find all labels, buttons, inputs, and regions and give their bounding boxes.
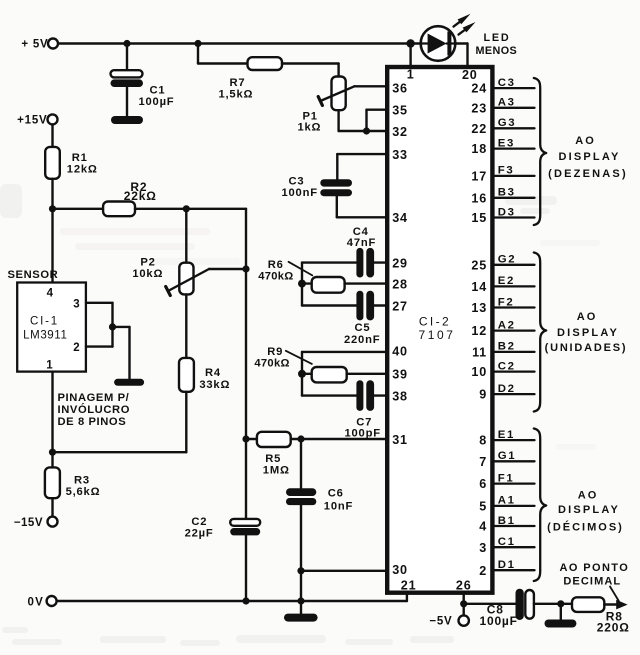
wire pin31 [291,438,388,440]
svg-text:18: 18 [471,142,487,156]
svg-text:1: 1 [46,359,53,371]
svg-text:22kΩ: 22kΩ [124,189,157,203]
pin 10 wire / segment C2 [495,370,535,372]
svg-text:A3: A3 [498,97,516,109]
svg-text:8: 8 [479,434,487,448]
svg-text:470kΩ: 470kΩ [258,270,293,282]
wire sensor pin2 [86,345,113,347]
capacitor C6 [286,488,316,496]
svg-text:SENSOR: SENSOR [8,269,59,281]
pin 4 wire / segment B1 [495,525,535,527]
ground C8-R8 [545,620,577,628]
svg-text:5: 5 [479,500,487,514]
svg-text:13: 13 [471,301,487,315]
svg-text:INVÓLUCRO: INVÓLUCRO [58,403,131,416]
svg-text:R4: R4 [205,367,221,379]
wire pin35 link [367,108,388,110]
node R9 junction [298,370,306,378]
ground under C1 [111,116,143,124]
svg-text:−5V: −5V [429,615,452,627]
pin 11 wire / segment B2 [495,351,535,353]
potentiometer P1 [332,77,346,111]
svg-text:29: 29 [392,256,408,270]
svg-text:C2: C2 [498,360,516,372]
svg-text:220nF: 220nF [344,334,380,346]
pin 8 wire / segment E1 [495,439,535,441]
wire middle column [245,209,247,519]
svg-text:C6: C6 [328,487,344,499]
pin 2 wire / segment D1 [495,569,535,571]
svg-text:G1: G1 [498,450,516,462]
svg-text:R1: R1 [72,152,88,164]
svg-text:17: 17 [471,170,487,184]
pin 23 wire / segment A3 [495,107,535,109]
svg-text:36: 36 [392,82,408,96]
capacitor C5 [356,291,363,321]
op-amp U CI-1 LM3911 box [17,283,86,372]
svg-text:+ 5V: + 5V [21,39,48,51]
svg-text:30: 30 [392,563,408,577]
wire R7 branch [197,44,199,64]
svg-text:4: 4 [47,288,54,300]
wire R2 right [135,208,246,210]
svg-text:26: 26 [456,578,472,592]
svg-text:47nF: 47nF [347,237,376,249]
svg-text:0V: 0V [28,596,44,608]
wire pin34 [336,196,338,217]
wire R2 to P2 [185,209,187,263]
svg-text:21: 21 [401,578,417,592]
svg-text:AO: AO [575,135,596,147]
pin 17 wire / segment F3 [495,175,535,177]
svg-text:22µF: 22µF [185,528,214,540]
wire +15V to R1 [51,124,53,147]
node C1 junction [123,40,130,47]
wire C5 loop [301,284,303,306]
svg-text:MENOS: MENOS [476,45,518,57]
svg-text:G2: G2 [498,254,516,266]
svg-text:14: 14 [471,280,487,294]
svg-text:LED: LED [484,32,511,44]
svg-text:10nF: 10nF [324,501,353,513]
ground below 0V rail [284,614,318,622]
scan noise (decorative) [0,184,600,646]
pin 6 wire / segment F1 [495,482,535,484]
svg-text:R3: R3 [74,475,90,487]
svg-text:1,5kΩ: 1,5kΩ [219,89,254,101]
node 0V rail junction [297,597,304,604]
svg-text:R6: R6 [268,259,284,271]
resistor R2 [103,202,135,217]
svg-text:CI-2: CI-2 [419,314,451,328]
LED MENOS [421,26,456,61]
resistor R4 [179,358,194,392]
-15V terminal [48,517,58,527]
node R5 right junction [297,435,304,442]
pin 5 wire / segment A1 [495,505,535,507]
wire 0V rail [57,600,407,602]
svg-text:DISPLAY: DISPLAY [558,504,620,516]
node R7 junction [194,40,201,47]
svg-text:10: 10 [471,365,487,379]
svg-text:AO PONTO: AO PONTO [560,562,630,574]
svg-text:(DEZENAS): (DEZENAS) [548,168,628,180]
svg-text:AO: AO [578,490,599,502]
svg-text:33kΩ: 33kΩ [199,379,230,391]
wire R7 to P1 [282,62,339,64]
0V terminal [47,596,57,606]
capacitor C3 [320,179,352,186]
capacitor C7 [356,380,363,411]
svg-text:39: 39 [392,368,408,382]
svg-text:9: 9 [479,388,487,402]
svg-text:DISPLAY: DISPLAY [558,151,620,163]
node pin1-R3 junction [49,449,56,456]
wire pin38 [374,394,387,396]
wire pin1 drop [409,44,411,68]
svg-text:F3: F3 [498,165,515,177]
svg-text:2: 2 [73,342,80,354]
leader line R9 [286,351,312,364]
svg-text:DECIMAL: DECIMAL [563,575,621,587]
svg-text:3: 3 [73,298,80,310]
svg-text:DE 8 PINOS: DE 8 PINOS [58,416,127,428]
wire R2 left [53,208,104,210]
wire LED to pin20 [455,42,467,44]
svg-text:100nF: 100nF [282,187,318,199]
svg-text:32: 32 [392,125,408,139]
svg-text:AO: AO [577,311,598,323]
svg-text:A1: A1 [498,495,516,507]
wire C1 drop [126,44,128,71]
svg-text:23: 23 [471,101,487,115]
wire pin26 drop [463,593,465,616]
svg-text:40: 40 [392,345,408,359]
svg-text:LM3911: LM3911 [23,330,67,342]
svg-text:D2: D2 [498,383,516,395]
node R1-R2-sensor junction [49,205,56,212]
svg-text:3: 3 [479,541,487,555]
wire P1 wiper to pin36 [354,85,387,87]
wire C6 column bottom [300,505,302,614]
pin 13 wire / segment F2 [495,306,535,308]
svg-text:B2: B2 [498,341,516,353]
svg-text:100pF: 100pF [345,427,381,439]
wire junction to ground [560,604,562,620]
wire pin39 [347,373,388,375]
potentiometer P2 [179,263,193,295]
wire P1 bottom to pin32 [337,110,339,131]
node wiper junction [242,265,249,272]
svg-text:100µF: 100µF [480,614,518,628]
svg-text:15: 15 [471,211,487,225]
resistor R6 [302,282,312,284]
LED light arrow 2 [459,29,467,35]
svg-text:470kΩ: 470kΩ [254,357,289,369]
resistor R5 [246,438,257,440]
wire C8 to R8 [534,603,572,605]
svg-text:+15V: +15V [17,115,47,127]
wire pin30 [301,570,387,572]
resistor R3 [45,467,60,498]
svg-text:12kΩ: 12kΩ [67,163,98,175]
wire C7 loop [301,374,303,396]
svg-text:2: 2 [479,564,487,578]
svg-text:P2: P2 [140,256,155,268]
svg-text:1: 1 [407,68,415,82]
op-amp U CI-2 7107 box [387,67,492,593]
svg-text:22: 22 [471,122,487,136]
resistor R8 [572,597,604,612]
svg-text:16: 16 [471,191,487,205]
wire node to sensor pin4 [51,209,53,283]
svg-text:D1: D1 [498,559,516,571]
wire pin29 [374,261,387,263]
pin 24 wire / segment C3 [495,87,535,89]
svg-text:R9: R9 [267,346,283,358]
node sensor pins 2-3 junction [109,323,116,330]
svg-text:34: 34 [392,211,408,225]
node pin30 junction [297,567,304,574]
pin 12 wire / segment A2 [495,329,535,331]
+5V terminal [48,39,58,49]
svg-text:11: 11 [472,346,487,360]
svg-text:6: 6 [479,477,487,491]
wire node to R3 [51,452,53,467]
wire pin33 [337,153,387,155]
svg-text:4: 4 [479,520,487,534]
svg-text:7107: 7107 [418,328,455,342]
svg-text:24: 24 [471,82,487,96]
svg-text:A2: A2 [498,319,516,331]
wire P2 to R4 [185,294,187,358]
ground sensor [114,379,144,386]
svg-text:7: 7 [479,455,487,469]
svg-text:C3: C3 [498,77,516,89]
resistor R1 [45,147,60,179]
capacitor C8 [516,589,524,620]
capacitor C2 [230,519,260,526]
pin 14 wire / segment E2 [495,285,535,287]
capacitor C1 [111,70,143,77]
svg-text:12: 12 [471,324,487,338]
svg-text:CI-1: CI-1 [30,315,59,327]
wire +5V rail [58,42,420,44]
svg-text:R5: R5 [265,453,281,465]
svg-text:C1: C1 [498,536,516,548]
svg-text:20: 20 [462,68,478,82]
svg-text:C1: C1 [150,85,166,97]
pin 15 wire / segment D3 [495,216,535,218]
wire C2 to rail [245,535,247,601]
svg-text:220Ω: 220Ω [597,620,630,634]
capacitor C4 [356,248,363,278]
svg-text:E1: E1 [498,429,515,441]
pin 3 wire / segment C1 [495,546,535,548]
svg-text:B3: B3 [498,187,516,199]
svg-text:(UNIDADES): (UNIDADES) [545,342,628,354]
svg-text:28: 28 [392,277,408,291]
wire sensor pin1 down [51,372,53,453]
svg-text:100µF: 100µF [139,96,175,108]
svg-text:10kΩ: 10kΩ [132,268,163,280]
wire C6 column top [300,439,302,489]
svg-text:PINAGEM P/: PINAGEM P/ [58,392,130,404]
pin 25 wire / segment G2 [495,264,535,266]
-5V terminal [459,615,469,625]
leader line R6 [289,262,313,276]
wire P2 wiper [209,268,246,270]
svg-text:E3: E3 [498,137,515,149]
svg-text:C5: C5 [355,322,371,334]
node C8-R8 junction [557,600,564,607]
svg-text:G3: G3 [498,117,516,129]
wire pin21 [406,593,408,601]
svg-text:C3: C3 [289,175,305,187]
svg-text:1MΩ: 1MΩ [263,465,290,477]
brace display dezenas [534,78,546,225]
node pin1 junction [406,39,414,47]
node R6 junction [298,280,306,288]
svg-text:38: 38 [392,389,408,403]
svg-text:F2: F2 [498,296,515,308]
svg-text:−15V: −15V [14,517,43,529]
brace display unidades [534,253,546,412]
wire R3 to -15V [51,498,53,516]
wire pin40 loop [301,352,303,374]
brace display decimos [534,429,546,582]
resistor R7 [248,57,283,70]
pin 16 wire / segment B3 [495,197,535,199]
resistor R9 [302,373,312,375]
wire R4 to sensor line [185,392,187,452]
pin 22 wire / segment G3 [495,127,535,129]
+15V terminal [48,114,58,124]
LED light arrow 1 [454,21,461,26]
pin 9 wire / segment D2 [495,393,535,395]
svg-text:31: 31 [392,433,408,447]
wire pin27 [374,304,387,306]
wire C4 loop [301,263,303,284]
node pin35-pin32 junction [363,127,370,134]
svg-text:B1: B1 [498,515,516,527]
svg-text:D3: D3 [498,206,516,218]
node pin26 junction [460,600,467,607]
svg-text:33: 33 [392,148,408,162]
svg-text:E2: E2 [498,275,515,287]
svg-text:R7: R7 [230,77,246,89]
svg-text:25: 25 [471,258,487,272]
svg-text:27: 27 [392,299,408,313]
wire pin1 node to R4 [53,451,187,453]
wire pins23 to ground [113,326,130,328]
wire pin26 to C8 [464,603,516,605]
svg-text:C2: C2 [191,516,207,528]
node R2-P2 junction [183,205,190,212]
svg-text:F1: F1 [498,472,515,484]
svg-text:DISPLAY: DISPLAY [557,327,619,339]
leader line decimal [610,587,619,602]
wire sensor pin3 [86,302,113,304]
wire pin28 [345,282,388,284]
wire R8 output arrow [604,603,618,605]
wire R1 to node [51,179,53,209]
node C2 rail junction [242,597,249,604]
node R5 left junction [242,435,249,442]
pin 7 wire / segment G1 [495,460,535,462]
svg-text:(DÉCIMOS): (DÉCIMOS) [547,521,624,534]
pin 18 wire / segment E3 [495,147,535,149]
svg-text:1kΩ: 1kΩ [298,122,322,134]
svg-text:5,6kΩ: 5,6kΩ [66,486,101,498]
svg-text:35: 35 [392,104,408,118]
